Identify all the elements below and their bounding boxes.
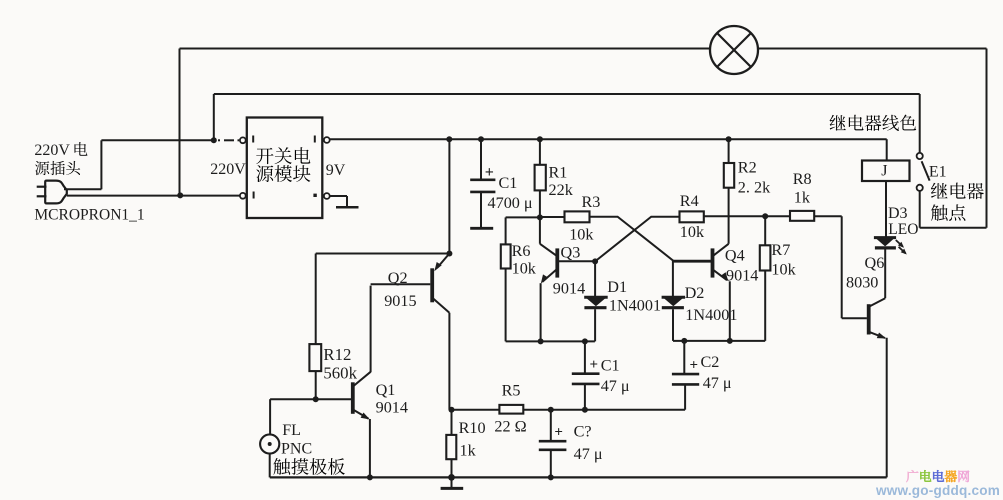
svg-text:R7: R7 <box>771 241 790 259</box>
svg-text:1k: 1k <box>460 442 477 460</box>
svg-text:22k: 22k <box>549 181 574 199</box>
svg-text:R5: R5 <box>502 382 521 400</box>
svg-text:10k: 10k <box>512 260 537 278</box>
svg-text:D2: D2 <box>685 284 705 302</box>
svg-text:Q6: Q6 <box>865 254 885 272</box>
svg-text:9015: 9015 <box>384 292 416 310</box>
svg-text:D1: D1 <box>607 278 627 296</box>
svg-text:1N4001: 1N4001 <box>609 296 661 314</box>
svg-text:4700 μ: 4700 μ <box>488 194 533 212</box>
svg-text:E1: E1 <box>929 164 947 181</box>
svg-text:220V: 220V <box>34 142 70 159</box>
svg-text:220V: 220V <box>210 161 246 178</box>
svg-text:9014: 9014 <box>553 280 585 298</box>
svg-text:47 μ: 47 μ <box>574 445 603 463</box>
svg-text:R3: R3 <box>582 193 601 211</box>
svg-text:C1: C1 <box>499 174 518 192</box>
svg-text:R10: R10 <box>459 419 486 437</box>
svg-text:Q2: Q2 <box>388 269 408 287</box>
svg-text:2. 2k: 2. 2k <box>738 179 771 197</box>
svg-text:1N4001: 1N4001 <box>685 306 737 324</box>
svg-text:R6: R6 <box>512 242 531 260</box>
svg-text:1k: 1k <box>794 189 811 207</box>
svg-text:9V: 9V <box>326 162 346 179</box>
svg-text:MCROPRON1_1: MCROPRON1_1 <box>34 206 144 223</box>
svg-text:10k: 10k <box>569 226 594 244</box>
svg-text:+: + <box>690 357 699 373</box>
svg-text:R8: R8 <box>793 170 812 188</box>
svg-text:R2: R2 <box>738 159 757 177</box>
svg-text:C?: C? <box>574 422 592 440</box>
svg-text:47 μ: 47 μ <box>703 374 732 392</box>
svg-text:560k: 560k <box>323 364 357 383</box>
svg-text:J: J <box>881 162 887 179</box>
svg-text:Q1: Q1 <box>376 381 396 399</box>
svg-text:www.go-gddq.com: www.go-gddq.com <box>875 483 1000 498</box>
svg-text:+: + <box>485 164 494 181</box>
svg-text:22 Ω: 22 Ω <box>494 418 526 436</box>
svg-text:R4: R4 <box>680 192 699 210</box>
svg-text:PNC: PNC <box>281 440 312 457</box>
svg-text:47 μ: 47 μ <box>601 377 630 395</box>
svg-text:LEO: LEO <box>888 221 918 238</box>
svg-text:10k: 10k <box>771 261 796 279</box>
svg-text:9014: 9014 <box>376 398 408 416</box>
svg-text:FL: FL <box>282 422 301 439</box>
svg-text:C1: C1 <box>601 357 620 375</box>
svg-text:R12: R12 <box>323 345 351 364</box>
svg-text:D3: D3 <box>888 205 908 222</box>
svg-text:Q4: Q4 <box>725 247 745 265</box>
svg-text:Q3: Q3 <box>561 243 581 261</box>
svg-text:+: + <box>554 424 563 440</box>
svg-text:8030: 8030 <box>846 273 878 291</box>
svg-text:C2: C2 <box>701 353 720 371</box>
svg-text:9014: 9014 <box>726 266 758 284</box>
svg-text:+: + <box>590 357 599 373</box>
svg-text:10k: 10k <box>680 223 705 241</box>
svg-text:R1: R1 <box>549 163 568 181</box>
